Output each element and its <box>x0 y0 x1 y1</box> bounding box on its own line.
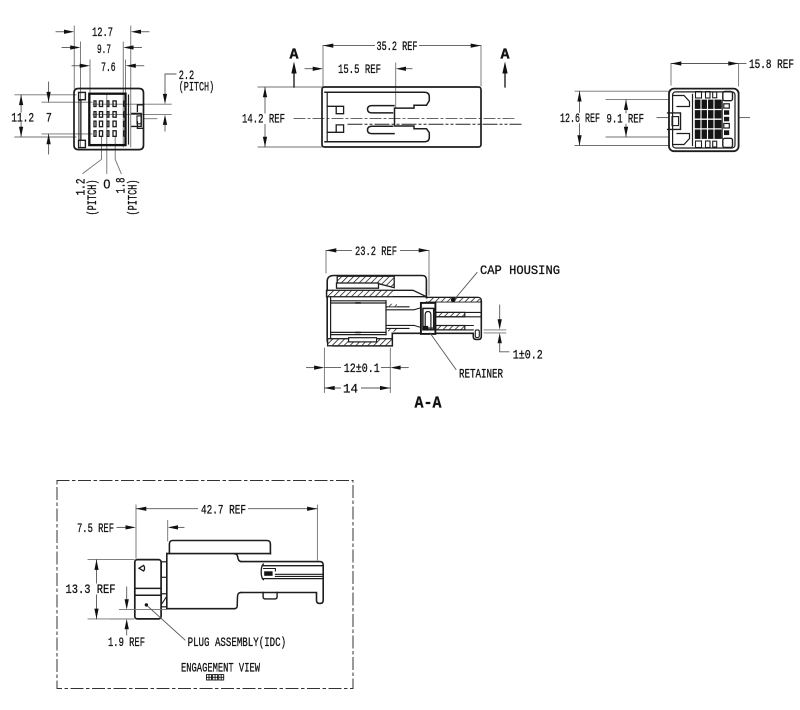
dimension 12.7 <box>56 31 149 33</box>
pin row4 <box>94 131 96 137</box>
svg-text:13.3 REF: 13.3 REF <box>66 582 116 597</box>
left bracket bottom tab <box>327 125 343 132</box>
ext line 12.7 left <box>73 26 75 89</box>
centerline stub right <box>144 118 157 120</box>
centerline stub right <box>740 117 750 119</box>
ext line 7.6 right <box>125 60 127 145</box>
svg-text:(PITCH): (PITCH) <box>85 180 100 216</box>
svg-text:ENGAGEMENT VIEW: ENGAGEMENT VIEW <box>181 661 260 676</box>
band slot bracket <box>261 564 263 580</box>
ext line 7 top <box>42 101 92 103</box>
ext line 42.7 left <box>135 505 137 558</box>
band top edge and right hook <box>241 562 323 604</box>
retainer inner <box>423 308 434 329</box>
dim 13.3 REF <box>96 560 98 619</box>
ext line 12.7 right <box>130 26 132 147</box>
dim 14.2 REF <box>264 87 266 147</box>
band inner line top <box>263 565 324 567</box>
extension top hatched band <box>426 298 481 302</box>
ext line 12.6 top <box>575 90 668 92</box>
top right box <box>723 92 733 101</box>
upper fork arm <box>368 106 395 113</box>
plug line 2 <box>135 594 161 596</box>
svg-text:A: A <box>290 47 299 63</box>
leader CAP HOUSING <box>454 273 478 301</box>
svg-text:(PITCH): (PITCH) <box>125 180 140 216</box>
left wall inner line <box>326 92 328 142</box>
extension lines (gray) <box>15 26 172 174</box>
dim 23.2 REF <box>326 249 429 251</box>
svg-text:14: 14 <box>343 381 358 396</box>
svg-text:(PITCH): (PITCH) <box>179 80 215 95</box>
svg-text:1.9 REF: 1.9 REF <box>108 635 145 650</box>
ext line 13.3 top <box>88 559 134 561</box>
svg-text:A-A: A-A <box>415 395 443 414</box>
svg-text:14.2 REF: 14.2 REF <box>242 112 285 127</box>
dim 42.7 REF <box>136 508 317 510</box>
extension mid hatched band <box>436 312 465 316</box>
bottom catch bump <box>263 593 277 599</box>
ext line 23.2 right <box>428 250 430 295</box>
keyway outer <box>668 113 681 129</box>
pin block white rows <box>695 109 721 111</box>
interface lower <box>161 594 167 607</box>
dimension 7 vertical <box>48 82 50 102</box>
cavity separator <box>692 95 694 146</box>
cutting plane centerline <box>294 118 516 120</box>
housing inner outline <box>673 92 735 148</box>
ext line 42.7 right <box>316 505 318 560</box>
svg-text:9.1 REF: 9.1 REF <box>607 111 645 126</box>
svg-text:CAP HOUSING: CAP HOUSING <box>480 263 560 278</box>
cavity right wall <box>128 95 130 144</box>
cap shoulder top <box>235 554 242 562</box>
cavity line top1 <box>331 300 386 302</box>
ext line 2.2 lower <box>93 114 171 116</box>
phantom border <box>57 481 353 689</box>
svg-text:23.2 REF: 23.2 REF <box>355 244 397 259</box>
ext line 12.6 bottom <box>575 145 668 147</box>
dimension 11.2 vertical <box>20 95 22 137</box>
latch centerline <box>348 123 521 125</box>
corner square bottom-left <box>79 140 86 147</box>
left channel <box>79 100 81 140</box>
cavity line bot2 <box>331 334 386 336</box>
ext line 35.2 left <box>322 46 324 86</box>
ext line 9.1 bottom <box>606 136 668 138</box>
ext line 23.2 left <box>325 250 327 273</box>
cavity line bot1 <box>331 331 386 333</box>
ext line 11.2 top <box>15 94 76 96</box>
bottom step white box <box>349 338 377 342</box>
pin row1 <box>94 101 96 107</box>
svg-text:42.7 REF: 42.7 REF <box>201 502 246 517</box>
top small slots <box>696 92 702 99</box>
tongue contour <box>325 92 429 142</box>
band wire blob <box>264 571 272 576</box>
ext line 2.2 upper <box>93 103 171 105</box>
caption CJK glyphs <box>207 675 224 680</box>
terminal lines upper <box>386 307 420 310</box>
ext line 13.3 bottom <box>88 618 134 620</box>
svg-text:1±0.2: 1±0.2 <box>513 347 543 362</box>
dim 1.9 REF <box>126 587 128 600</box>
cap top step <box>169 541 270 554</box>
left zig bottom <box>673 134 690 145</box>
cap body top edge <box>167 553 271 555</box>
band inner line bottom <box>263 578 324 580</box>
section arrow A left <box>293 73 295 87</box>
retainer channel walls <box>425 312 431 330</box>
ext line 14.2 top <box>258 86 322 88</box>
leader dot <box>145 603 148 606</box>
ext line 11.2 bottom <box>15 136 76 138</box>
svg-text:7.5 REF: 7.5 REF <box>77 521 114 536</box>
hook inner slot <box>475 330 479 338</box>
corner square top-left <box>79 92 86 99</box>
pin row2 <box>94 112 96 118</box>
svg-text:9.7: 9.7 <box>97 42 111 57</box>
svg-text:A: A <box>501 47 510 63</box>
svg-text:12.7: 12.7 <box>92 25 113 40</box>
inner cavity rectangle <box>89 94 125 145</box>
ext line 23.2 right overlay <box>428 276 430 295</box>
leader PLUG ASSEMBLY <box>148 606 185 640</box>
plug polarity mark <box>139 565 145 571</box>
bottom small slots <box>696 141 702 148</box>
dimension 7.6 <box>72 65 144 67</box>
dim 9.1 REF <box>625 100 627 137</box>
pin row3 <box>94 121 96 127</box>
ext line 9.7 right <box>122 42 124 147</box>
dimension 9.7 <box>62 47 142 49</box>
latch outline <box>132 114 141 127</box>
dim 15.8 REF <box>671 63 739 65</box>
extension channel lines <box>426 312 480 330</box>
ext line 15.8 left <box>670 64 672 86</box>
leader 0 <box>106 94 108 174</box>
svg-text:15.5 REF: 15.5 REF <box>338 62 381 77</box>
ext line 7.5 <box>167 520 169 541</box>
svg-text:11.2: 11.2 <box>11 110 34 125</box>
leader 1.8 <box>115 138 121 174</box>
section arrow A right <box>504 73 506 87</box>
cap shoulder bottom <box>234 593 241 609</box>
band sub line <box>264 569 276 572</box>
bottom hatched band <box>328 339 393 346</box>
ext line 35.2 right <box>480 46 482 86</box>
lower fork arm <box>368 126 395 133</box>
svg-text:7.6: 7.6 <box>101 60 116 75</box>
ext line 1 upper <box>484 329 506 331</box>
plug line 1 <box>135 587 161 589</box>
svg-text:35.2 REF: 35.2 REF <box>377 39 418 54</box>
svg-text:7: 7 <box>46 110 52 125</box>
ext line 12 left <box>323 348 325 393</box>
dim 15.5 REF <box>305 68 315 70</box>
cap body left edge <box>166 554 168 609</box>
dimension 2.2 (PITCH) <box>165 74 176 131</box>
svg-text:0: 0 <box>103 177 110 191</box>
ext line 1 lower <box>484 332 506 334</box>
ext line 9.7 left <box>80 42 82 147</box>
extension low hatched band <box>436 326 465 330</box>
ext line 12 right <box>389 348 391 393</box>
inner wall line <box>330 297 332 339</box>
connector body outline <box>74 89 144 150</box>
dim 12±0.1 <box>307 367 317 369</box>
bottom right box <box>723 138 733 147</box>
notch top <box>137 105 143 112</box>
ext line 1.9 upper <box>119 609 165 611</box>
keyway inner <box>672 117 679 126</box>
left zig top <box>673 96 690 107</box>
svg-text:15.8 REF: 15.8 REF <box>749 57 794 72</box>
band bottom edge <box>241 592 316 594</box>
dim 14 <box>324 387 390 389</box>
ext line 15.8 right <box>738 64 740 87</box>
pin block (dark) <box>695 100 722 139</box>
interface upper <box>161 562 167 578</box>
svg-text:PLUG ASSEMBLY(IDC): PLUG ASSEMBLY(IDC) <box>188 635 287 650</box>
terminal hatch nub lower <box>388 329 397 332</box>
dim 35.2 REF <box>323 45 481 47</box>
cavity line top2 <box>331 302 386 304</box>
retainer bottom line <box>428 327 435 329</box>
notch bottom <box>137 122 143 129</box>
left bracket top tab <box>327 106 343 113</box>
interface diag <box>162 597 167 604</box>
dim 12.6 REF <box>579 91 581 145</box>
cavity mid tick <box>356 302 360 304</box>
housing outer outline <box>669 89 739 152</box>
ext line 14.2 bottom <box>258 146 322 148</box>
centerline stub left <box>657 117 669 119</box>
terminal hatch nub upper <box>388 304 397 307</box>
top raised hatched bar <box>337 276 394 288</box>
ext line 1.9 lower <box>110 618 133 620</box>
top step white box <box>337 283 379 288</box>
band mid lines <box>275 574 323 576</box>
body outer silhouette <box>327 276 481 346</box>
leader 1.2 <box>83 138 102 174</box>
housing outer rectangle <box>322 87 481 147</box>
cap body bottom edge <box>167 608 235 610</box>
latch inner <box>137 116 141 124</box>
ext line 7.6 left <box>89 60 91 145</box>
svg-text:12.6 REF: 12.6 REF <box>560 111 600 126</box>
cavity right wall <box>385 301 387 335</box>
cavity mid tick2 <box>356 332 360 334</box>
terminal lines lower <box>386 325 420 328</box>
retainer dark corner <box>423 326 428 330</box>
svg-text:RETAINER: RETAINER <box>459 367 503 382</box>
svg-text:12±0.1: 12±0.1 <box>344 361 380 376</box>
right column features <box>724 104 730 108</box>
retainer outer <box>421 303 436 334</box>
pin grid <box>94 101 125 136</box>
ext line 7 bottom <box>42 133 92 135</box>
ext line 9.1 top <box>606 99 668 101</box>
right column line <box>721 101 723 139</box>
plug body <box>135 560 161 619</box>
leader RETAINER <box>430 333 456 370</box>
dim 1±0.2 <box>499 305 501 320</box>
pin block white cols <box>700 100 702 139</box>
main top hatched band <box>327 290 427 296</box>
ext line 15.5 <box>395 63 397 108</box>
